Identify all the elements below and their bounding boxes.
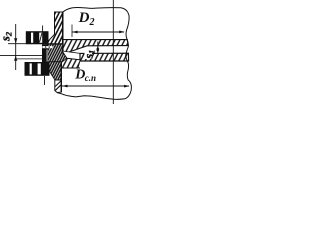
s1 arrow up	[96, 46, 99, 51]
upper pipe wall (hatched strip with hub taper)	[48, 12, 63, 44]
D2 right arrow	[119, 31, 125, 34]
bolt centerline above head	[42, 26, 44, 33]
svg-text:с.п: с.п	[85, 73, 96, 83]
D2 dimension line	[72, 31, 124, 33]
label s2 (rotated)	[0, 31, 14, 42]
dimension s2: dim line	[15, 24, 17, 70]
Dc.p left arrow	[62, 85, 68, 88]
lower flange band (hatched)	[80, 53, 129, 61]
lower flange ring left part (hatched)	[55, 58, 80, 68]
bolt centerline below nut	[44, 76, 46, 85]
Dc.p dimension line	[62, 85, 129, 87]
centerline axis	[112, 0, 114, 104]
bottom break line (freehand wavy)	[57, 93, 125, 100]
s2 arrow up	[14, 55, 17, 60]
D2 left arrow	[72, 31, 78, 34]
top break line curve	[63, 7, 129, 39]
right break line (freehand)	[125, 40, 131, 99]
svg-text:D: D	[74, 68, 85, 83]
Dc.p right arrow	[124, 85, 130, 88]
line: gasket bottom face	[17, 58, 48, 60]
lower pipe wall upper dense part	[49, 62, 62, 80]
lower ring bottom face line	[55, 67, 80, 69]
D2 extension line	[71, 25, 73, 38]
extension line: gasket top face	[0, 54, 63, 56]
upper hub dense mass	[48, 44, 68, 62]
upper flange band (hatched)	[63, 40, 128, 54]
lower pipe wall lower part (sparse hatch)	[55, 80, 62, 93]
s1 dim line	[97, 42, 99, 60]
gasket step outline (white trapezoid)	[62, 51, 80, 60]
bolt shank	[42, 44, 52, 62]
nut	[25, 62, 50, 76]
extension line: flange top face	[8, 43, 63, 45]
label s1 (rotated, white knockout)	[85, 51, 93, 59]
lower strip right edge thick	[60, 62, 62, 92]
thread slit on shank	[42, 46, 52, 48]
bolt head	[26, 31, 49, 44]
s2 arrow down	[14, 38, 17, 43]
strip right edge thick	[62, 12, 64, 44]
s1 arrow down	[96, 48, 99, 53]
